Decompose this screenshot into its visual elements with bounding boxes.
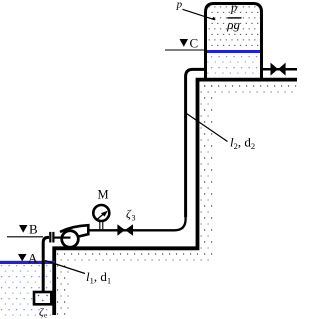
svg-text:M: M <box>98 188 109 202</box>
pipe l2 riser and tank inlet stub <box>186 69 205 217</box>
foot valve strainer <box>34 292 51 304</box>
ground hatching reservoir-edge band <box>57 262 71 315</box>
svg-text:A: A <box>28 250 38 265</box>
leader line for p <box>183 9 216 19</box>
level line B <box>7 236 43 238</box>
centrifugal pump <box>60 225 88 247</box>
wire pump inlet <box>55 237 71 239</box>
label zeta3 <box>126 207 136 223</box>
reservoir water surface line A <box>0 261 55 264</box>
ground profile line <box>54 80 297 315</box>
level marker C <box>180 36 199 51</box>
svg-text:B: B <box>29 221 38 236</box>
reservoir water stipple <box>0 265 52 319</box>
tank water stipple <box>207 53 260 79</box>
tank gas stipple <box>207 6 260 50</box>
label fraction p over rho g <box>226 1 241 32</box>
flange coupling <box>49 232 54 243</box>
svg-text:e: e <box>44 312 47 319</box>
leader line for l2 d2 <box>187 114 228 142</box>
svg-text:3: 3 <box>132 214 136 223</box>
valve zeta3 <box>117 224 133 236</box>
svg-text:p: p <box>230 1 237 15</box>
pressure gauge M <box>93 205 109 229</box>
outlet pipe right of tank <box>263 68 297 71</box>
level line C <box>165 49 204 51</box>
suction pipe l1 <box>43 237 49 291</box>
ground hatching lower surface band <box>55 251 198 262</box>
tank water surface line <box>206 50 261 53</box>
leader line for l1 d1 <box>45 261 85 274</box>
ground hatching cliff band <box>201 82 215 262</box>
ground hatching upper surface band <box>198 82 297 94</box>
outlet valve <box>271 63 286 76</box>
svg-text:p: p <box>176 0 183 10</box>
pressure tank outline <box>206 4 262 80</box>
wire discharge pipe horizontal run <box>89 215 186 230</box>
svg-text:C: C <box>190 36 199 51</box>
level marker B <box>19 221 38 236</box>
level marker A <box>18 250 38 265</box>
svg-text:ρg: ρg <box>226 17 240 32</box>
label zeta strainer <box>39 307 47 319</box>
